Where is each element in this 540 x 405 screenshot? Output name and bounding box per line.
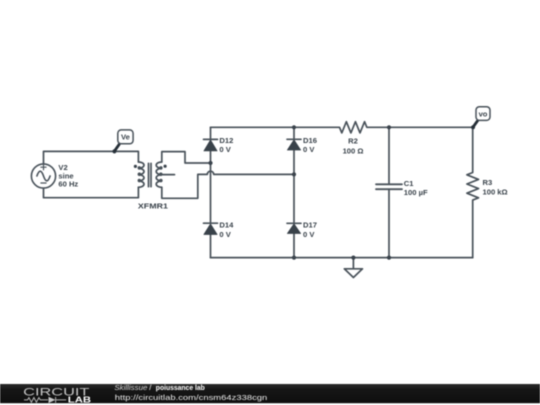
svg-text:100 µF: 100 µF: [404, 188, 428, 197]
svg-text:C1: C1: [404, 179, 414, 188]
svg-text:D12: D12: [219, 136, 233, 145]
svg-text:D17: D17: [303, 221, 317, 230]
svg-text:vo: vo: [479, 109, 488, 118]
svg-text:0 V: 0 V: [303, 145, 315, 154]
svg-text:0 V: 0 V: [219, 145, 231, 154]
svg-text:0 V: 0 V: [219, 230, 231, 239]
svg-text:100 kΩ: 100 kΩ: [483, 187, 508, 196]
svg-text:Skillissue: Skillissue: [114, 383, 147, 392]
svg-text:XFMR1: XFMR1: [138, 202, 169, 211]
svg-text:0 V: 0 V: [303, 230, 315, 239]
svg-text:Ve: Ve: [121, 133, 130, 142]
svg-text:60 Hz: 60 Hz: [58, 180, 78, 189]
svg-text:R3: R3: [483, 178, 493, 187]
svg-text:R2: R2: [348, 137, 358, 146]
svg-text:LAB: LAB: [68, 396, 92, 405]
svg-text:D16: D16: [303, 136, 317, 145]
svg-text:poiussance lab: poiussance lab: [156, 383, 205, 392]
svg-text:D14: D14: [219, 221, 234, 230]
svg-text:100 Ω: 100 Ω: [343, 146, 364, 155]
svg-text:http://circuitlab.com/cnsm64z3: http://circuitlab.com/cnsm64z338cgn: [115, 393, 267, 402]
